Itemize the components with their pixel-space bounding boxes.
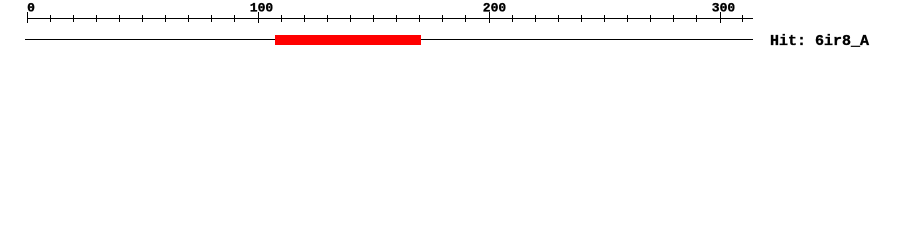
svg-text:Hit: 6ir8_A: Hit: 6ir8_A	[770, 33, 869, 50]
major tick 300	[720, 12, 721, 23]
major tick 0	[27, 12, 28, 23]
major tick 100	[258, 12, 259, 23]
svg-text:300: 300	[712, 1, 736, 16]
svg-text:200: 200	[483, 1, 507, 16]
query line	[25, 39, 753, 40]
minor ticks every 10 units	[50, 15, 743, 22]
svg-text:100: 100	[250, 1, 274, 16]
background	[0, 0, 900, 60]
major tick 200	[489, 12, 490, 23]
ruler axis line	[27, 18, 753, 19]
svg-text:0: 0	[27, 1, 35, 16]
hit alignment bar	[275, 35, 421, 45]
